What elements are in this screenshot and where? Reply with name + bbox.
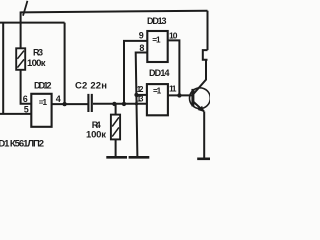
- wire collector top vertical: [207, 11, 209, 50]
- wire R3 bottom to pin6: [21, 70, 32, 104]
- wire feedback drop vertical: [64, 23, 66, 105]
- op-amp U3: XOR gate DD14: [147, 84, 168, 115]
- op-amp U1: XOR gate DD12: [31, 94, 51, 127]
- transistor Q1 base bar: [191, 89, 194, 107]
- svg-text:100к: 100к: [86, 130, 106, 141]
- wire emitter down: [203, 111, 205, 158]
- resistor collector load (clipped): [203, 50, 208, 60]
- wire pin9 riser: [124, 41, 147, 105]
- svg-text:R3: R3: [33, 48, 43, 58]
- node junction pin9 riser: [122, 102, 126, 106]
- wire left feedback horizontal: [0, 22, 65, 24]
- svg-text:9: 9: [139, 31, 144, 41]
- svg-text:C2 22н: C2 22н: [75, 81, 107, 92]
- transistor Q1 collector: [194, 60, 207, 94]
- wire pin4 output: [52, 103, 88, 105]
- svg-text:4: 4: [56, 94, 61, 104]
- wire pin10 output: [168, 40, 180, 95]
- svg-text:DD14: DD14: [149, 68, 170, 78]
- svg-text:DD1 К561ЛП2: DD1 К561ЛП2: [0, 138, 44, 149]
- wire left feedback vertical: [2, 23, 4, 114]
- wire R3 top vertical: [20, 12, 22, 49]
- svg-text:100к: 100к: [27, 58, 46, 69]
- svg-text:11: 11: [169, 84, 177, 94]
- ground emitter: [197, 158, 210, 161]
- svg-text:DD12: DD12: [34, 81, 52, 91]
- wire pin8: [136, 53, 148, 158]
- svg-text:=1: =1: [153, 87, 162, 96]
- wire R4 bottom: [115, 139, 117, 157]
- svg-text:12: 12: [137, 85, 144, 94]
- svg-text:6: 6: [23, 94, 28, 104]
- node junction pin4: [62, 102, 66, 106]
- svg-text:=1: =1: [39, 98, 48, 107]
- ground DD14 inputs: [129, 156, 150, 159]
- wire break slash mark: [23, 1, 27, 16]
- svg-text:10: 10: [169, 31, 178, 41]
- wire R4 top: [115, 104, 117, 115]
- node junction pin10/pin11: [177, 93, 181, 97]
- wire pin12: [136, 94, 147, 96]
- svg-text:13: 13: [137, 94, 144, 103]
- svg-text:8: 8: [139, 43, 144, 53]
- svg-text:5: 5: [24, 105, 29, 115]
- node junction R4: [112, 102, 116, 106]
- wire top rail: [21, 11, 208, 13]
- op-amp U2: XOR gate DD13: [147, 31, 167, 62]
- transistor Q1 emitter with arrow: [194, 102, 205, 112]
- capacitor C2: [88, 94, 91, 112]
- svg-text:=1: =1: [152, 35, 161, 44]
- transistor Q1 circle: [190, 88, 211, 109]
- node crossing pin13: [135, 102, 138, 105]
- svg-text:R4: R4: [92, 120, 101, 130]
- resistor R4: [111, 115, 120, 140]
- ground R4: [106, 156, 127, 159]
- svg-text:DD13: DD13: [147, 16, 167, 26]
- wire C2 to DD14 pin13: [93, 103, 147, 105]
- wire pin11 to base: [168, 94, 193, 96]
- node junction pin12: [134, 93, 138, 97]
- wire pin5 from left edge: [0, 113, 31, 115]
- resistor R3: [16, 48, 25, 70]
